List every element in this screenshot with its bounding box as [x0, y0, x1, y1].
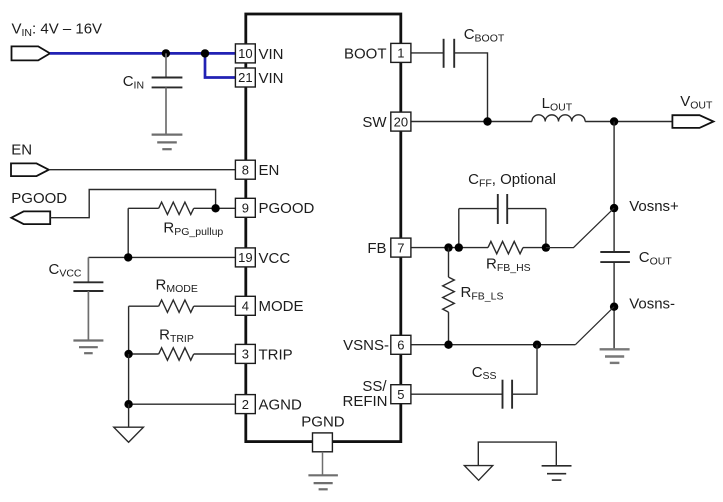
ground earth CVCC	[73, 341, 103, 354]
pin box 10 VIN	[235, 44, 255, 63]
svg-text:10: 10	[238, 46, 252, 61]
pin box 21 VIN	[235, 68, 255, 87]
junction dot VCC	[124, 253, 132, 261]
resistor RPG_pullup	[128, 202, 215, 214]
svg-text:TRIP: TRIP	[259, 346, 293, 363]
svg-text:21: 21	[238, 70, 252, 85]
svg-text:19: 19	[238, 250, 252, 265]
svg-text:EN: EN	[11, 141, 32, 158]
wire MODE rail down	[128, 306, 130, 354]
pin box 4 MODE	[235, 296, 255, 315]
svg-text:BOOT: BOOT	[344, 45, 387, 62]
ground triangle AGND	[114, 427, 144, 442]
wire RPG row left	[216, 207, 236, 209]
capacitor CFF	[459, 194, 546, 248]
junction dot pin9	[211, 204, 219, 212]
wire AGND row	[129, 403, 236, 405]
wire VIN blue main	[50, 52, 236, 55]
wire FB row	[411, 247, 488, 249]
ground triangle tie	[464, 466, 492, 481]
svg-text:AGND: AGND	[259, 397, 303, 414]
ground earth tie	[542, 466, 572, 480]
pin box 2 AGND	[235, 395, 255, 414]
wire VSNS- to Vosns- diagonal	[575, 307, 614, 345]
svg-text:REFIN: REFIN	[343, 393, 388, 410]
junction dot Vosns-	[610, 303, 618, 311]
junction dot VSNS-CSS	[533, 341, 541, 349]
wire SW row	[411, 121, 532, 123]
pin box 19 VCC	[235, 248, 255, 267]
wire LOUT to VOUT	[585, 121, 672, 123]
junction dot SW-CBOOT	[483, 117, 491, 125]
output flag PGOOD	[11, 211, 50, 224]
capacitor CVCC	[73, 257, 103, 340]
svg-text:8: 8	[242, 162, 249, 177]
wire SS row	[411, 393, 502, 395]
wire CSS to VSNS- node	[512, 345, 537, 395]
junction dot Vosns+	[610, 204, 618, 212]
resistor RMODE	[129, 300, 236, 312]
wire RPG to VCC rail	[127, 208, 129, 257]
capacitor COUT	[600, 252, 630, 262]
svg-text:6: 6	[397, 338, 404, 353]
pin box PGND	[313, 433, 333, 452]
svg-text:3: 3	[242, 347, 249, 362]
svg-text:7: 7	[397, 240, 404, 255]
wire VIN blue branch to pin 21	[205, 53, 236, 77]
resistor RTRIP	[129, 348, 236, 360]
pin label SS/REFIN 5	[343, 378, 388, 410]
svg-text:MODE: MODE	[259, 298, 304, 315]
svg-text:FB: FB	[367, 240, 386, 257]
pin box 7 FB	[391, 238, 411, 257]
capacitor CBOOT	[444, 39, 455, 68]
svg-text:PGOOD: PGOOD	[11, 190, 67, 207]
svg-text:2: 2	[242, 397, 249, 412]
svg-text:PGND: PGND	[301, 414, 345, 431]
capacitor CIN	[152, 53, 183, 134]
resistor RFB_HS	[488, 241, 546, 253]
output flag VOUT	[672, 115, 713, 128]
junction dot VOUT column	[610, 117, 618, 125]
junction dot VIN-CIN	[162, 49, 170, 57]
svg-text:20: 20	[394, 114, 408, 129]
pin box 8 EN	[235, 160, 255, 179]
wire VCC row	[88, 256, 235, 258]
svg-text:VIN: VIN	[259, 70, 284, 87]
wire FB to Vosns+ diagonal	[546, 208, 614, 248]
svg-text:PGOOD: PGOOD	[259, 200, 315, 217]
wire PGND to ground	[322, 452, 324, 475]
IC body U1	[246, 14, 401, 442]
junction dot FB2	[455, 243, 463, 251]
svg-text:VSNS-: VSNS-	[343, 337, 389, 354]
input flag VIN	[12, 46, 51, 60]
wire PGOOD loop	[50, 190, 215, 218]
svg-text:Vosns-: Vosns-	[629, 295, 675, 312]
pin box 5 SS/REFIN	[391, 385, 411, 404]
svg-text:VCC: VCC	[259, 250, 291, 267]
wire BOOT to CBOOT	[411, 52, 444, 54]
label VIN: 4V - 16V	[12, 21, 103, 39]
wire VOUT column upper	[613, 122, 615, 252]
svg-text:9: 9	[242, 201, 249, 216]
junction dot TRIP rail	[124, 350, 132, 358]
wire EN	[49, 169, 236, 171]
pin box 6 VSNS-	[391, 335, 411, 354]
svg-text:5: 5	[397, 387, 404, 402]
wire VSNS- row	[411, 344, 576, 346]
pin box 20 SW	[391, 112, 411, 131]
ground earth CIN	[152, 135, 183, 150]
svg-text:Vosns+: Vosns+	[629, 198, 679, 215]
resistor RFB_LS	[443, 248, 455, 345]
inductor LOUT	[532, 115, 585, 122]
junction dot FB right	[542, 243, 550, 251]
junction dot AGND rail	[124, 400, 132, 408]
svg-text:1: 1	[397, 46, 404, 61]
svg-text:4: 4	[242, 299, 249, 314]
ground earth PGND	[308, 475, 338, 489]
svg-text:SW: SW	[362, 114, 387, 131]
pin box 3 TRIP	[235, 344, 255, 363]
junction dot VIN branch	[201, 49, 209, 57]
pin box 9 PGOOD	[235, 198, 255, 217]
ground earth COUT	[600, 349, 630, 363]
wire TRIP rail down	[128, 354, 130, 404]
junction dot VSNS-RFB_LS	[444, 341, 452, 349]
wire VOUT column lower	[613, 262, 615, 349]
wire AGND to ground	[128, 404, 130, 427]
junction dot FB1	[444, 243, 452, 251]
svg-text:VIN: VIN	[259, 46, 284, 63]
wire CBOOT to SW	[454, 53, 487, 122]
input flag EN	[11, 163, 49, 176]
pin box 1 BOOT	[391, 43, 411, 62]
capacitor CSS	[503, 380, 513, 409]
wire AGND-PGND tie	[478, 442, 556, 466]
svg-text:EN: EN	[259, 162, 280, 179]
